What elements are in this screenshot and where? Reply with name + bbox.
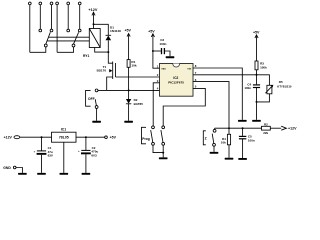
terminal K5 — [67, 2, 70, 5]
wire K2 down — [39, 5, 41, 29]
svg-text:10k: 10k — [131, 64, 136, 68]
sensor R5 arrow — [265, 86, 272, 93]
wire pole2 to K4 — [57, 47, 73, 52]
svg-text:OFF: OFF — [88, 97, 95, 101]
svg-text:+5V: +5V — [148, 29, 155, 33]
wire node E to sensor — [257, 75, 270, 86]
svg-text:78L05: 78L05 — [59, 136, 69, 140]
svg-text:RY1: RY1 — [83, 54, 89, 58]
svg-text:Z: Z — [205, 137, 207, 141]
svg-text:63V: 63V — [48, 154, 53, 158]
svg-text:+: + — [78, 149, 80, 153]
svg-text:6V3: 6V3 — [91, 153, 97, 157]
svg-text:KTY81/210: KTY81/210 — [277, 85, 292, 89]
relay contact lever 2 — [74, 32, 79, 44]
wire IC2 pin7 to node E — [193, 74, 257, 76]
node D junction — [152, 50, 154, 52]
terminal K3 — [50, 2, 53, 5]
relay contact pole 2 pivot — [72, 44, 75, 47]
ground OFF — [92, 121, 101, 123]
ground D2 — [124, 121, 133, 123]
node C junction — [128, 89, 130, 91]
transistor T1 BS170 channel — [112, 62, 114, 80]
wire relay coil bottom to node B — [95, 48, 109, 53]
transistor T1 gate bar — [115, 63, 117, 77]
svg-text:100n: 100n — [248, 138, 255, 142]
ground C5 — [238, 158, 247, 160]
svg-text:+12V: +12V — [288, 127, 297, 131]
terminal K4 — [56, 2, 59, 5]
terminal +5V out — [105, 136, 108, 139]
wire K1 down — [29, 5, 31, 53]
contact b3 — [78, 29, 81, 32]
terminal K6 — [78, 2, 81, 5]
wire node A to relay coil — [93, 24, 95, 28]
ground Prog — [159, 157, 168, 159]
wire +5V down to IC2 pin1 — [153, 34, 160, 68]
wire K4 down — [56, 5, 58, 53]
+5V arrow above C3 — [151, 34, 154, 37]
wire T1 source — [107, 77, 113, 90]
resistor R2 22k — [262, 126, 271, 130]
ground C4 — [252, 120, 261, 122]
relay contact pole 1 pivot — [44, 44, 47, 47]
wire K5 down — [67, 5, 69, 29]
+12V supply arrow — [92, 12, 95, 15]
svg-text:R2: R2 — [264, 123, 268, 127]
switch OFF bottom terminal — [95, 106, 98, 109]
wire C4 to ground — [256, 88, 258, 120]
svg-text:100k: 100k — [260, 66, 267, 70]
svg-text:+: + — [34, 149, 36, 153]
resistor R3 100k — [255, 61, 258, 70]
relay coil RY1 — [89, 29, 100, 48]
wire D2 to ground — [128, 104, 130, 121]
resistor R4 10k — [227, 134, 230, 145]
switch Z bracket — [203, 131, 206, 145]
capacitor C1 47u — [41, 137, 43, 151]
wire IC2 pin6 to node H — [193, 82, 229, 135]
wire node D to C3 — [153, 50, 161, 52]
ground C2 — [82, 173, 91, 175]
contact b2 — [67, 29, 70, 32]
svg-text:1N4148: 1N4148 — [110, 29, 121, 33]
svg-text:Vss: Vss — [187, 69, 192, 71]
capacitor C4 100n — [256, 75, 258, 85]
svg-text:10k: 10k — [221, 140, 226, 144]
wire IC2 pin3 stub — [153, 83, 159, 126]
wire +5V to R3 — [256, 35, 258, 61]
switch Z lever — [212, 134, 214, 144]
terminal GND — [13, 166, 16, 169]
wire Z to ground — [213, 146, 215, 152]
svg-text:+5V: +5V — [253, 30, 260, 34]
capacitor C5 100n — [242, 128, 244, 136]
wire IC2 pin8 to ground — [193, 68, 242, 120]
+5V arrow above R1 — [127, 34, 130, 37]
svg-text:BAT85: BAT85 — [134, 102, 144, 106]
wire +5V to R1 — [128, 34, 130, 60]
svg-text:+5V: +5V — [110, 135, 117, 139]
node E junction — [256, 74, 258, 76]
regulator IC1 78L05 — [52, 132, 77, 142]
node A junction — [93, 23, 95, 25]
wire rail node C row — [98, 89, 160, 91]
wire R3 to node E — [256, 70, 258, 75]
wire C2 to ground — [85, 154, 87, 173]
wire +12V input to IC1 — [20, 136, 52, 138]
wire K6 down — [79, 5, 81, 29]
wire R2 to +12V sense terminal — [270, 127, 281, 129]
ground R4 — [225, 158, 234, 160]
svg-text:+12V: +12V — [4, 136, 13, 140]
switch OFF bracket — [86, 90, 91, 106]
wire T1 gate to IC2 pin2 — [116, 76, 160, 78]
svg-text:22k: 22k — [263, 131, 268, 135]
wire contact bus 2 — [47, 40, 89, 42]
resistor R1 10k — [127, 60, 130, 68]
wire GND to ground — [16, 168, 22, 173]
switch Prog contact b bottom — [162, 142, 165, 145]
wire node B to T1 drain — [108, 52, 112, 63]
terminal +12V sense — [281, 126, 286, 130]
switch Prog contact b top — [162, 126, 165, 129]
node P junction — [41, 136, 43, 138]
svg-text:R5: R5 — [279, 80, 283, 84]
node F junction — [256, 101, 258, 103]
wire node H rail — [215, 127, 262, 129]
relay contact lever 1 — [46, 32, 51, 44]
wire Prog to ground — [153, 145, 163, 152]
switch OFF top terminal — [95, 89, 98, 92]
wire K3 down — [51, 5, 53, 29]
diode D1 1N4148 — [106, 34, 112, 36]
wire C5 to ground — [242, 139, 244, 158]
node B junction — [107, 51, 109, 53]
wire R1 to node C — [128, 67, 130, 90]
svg-text:PIC12F675: PIC12F675 — [168, 80, 184, 84]
wire OFF to ground — [96, 108, 98, 120]
wire sensor to node F — [257, 94, 270, 102]
switch Prog bracket — [142, 127, 147, 144]
switch Prog lever b — [161, 130, 163, 142]
ground C1 — [37, 173, 46, 175]
svg-text:IC1: IC1 — [61, 128, 66, 132]
svg-text:+5V: +5V — [124, 28, 131, 32]
wire C1 to ground — [41, 155, 43, 173]
contact a2 — [39, 29, 42, 32]
switch Prog contact a bottom — [152, 142, 155, 145]
wire R4 to ground — [228, 145, 230, 158]
wire C3 to ground — [165, 51, 170, 56]
svg-text:100n: 100n — [159, 42, 166, 46]
ground Z — [210, 152, 219, 154]
diode D2 BAT85 — [128, 90, 130, 99]
svg-text:GND: GND — [3, 166, 11, 170]
svg-text:+12V: +12V — [88, 8, 97, 12]
switch Prog contact a top — [152, 126, 155, 129]
capacitor C3 100n — [161, 48, 163, 54]
wire node A to D1 cathode — [94, 24, 109, 35]
ground C3 — [166, 56, 175, 58]
wire IC1 out to +5V terminal — [76, 136, 105, 138]
op IC2 PIC12F675 body — [160, 64, 194, 97]
wire +12V to node A — [93, 12, 95, 24]
svg-text:Prog: Prog — [142, 137, 150, 141]
ground GND — [18, 173, 27, 175]
svg-text:100n: 100n — [244, 86, 251, 90]
terminal K1 — [28, 2, 31, 5]
transistor T1 arrow — [109, 69, 112, 72]
wire contact bus 1 — [49, 36, 90, 38]
terminal K2 — [39, 2, 42, 5]
terminal +12V input — [14, 136, 20, 139]
switch OFF lever — [95, 99, 96, 105]
node G junction — [162, 152, 164, 154]
wire IC2 pin5 to Prog switch — [163, 88, 205, 126]
wire IC1 ground pin — [63, 142, 65, 173]
wire rail corner to switch Z — [214, 128, 216, 129]
switch Prog lever a — [151, 130, 153, 142]
switch Z top terminal — [213, 129, 216, 132]
ground pin8 — [238, 120, 247, 122]
IC2 notch — [173, 64, 180, 68]
svg-text:Vdd: Vdd — [161, 69, 166, 71]
+5V arrow above R3 — [255, 35, 258, 38]
sensor R5 KTY81 body — [267, 85, 272, 94]
svg-text:BS170: BS170 — [97, 69, 107, 73]
contact a3 — [50, 29, 53, 32]
ground IC1 — [60, 173, 69, 175]
switch Z bottom terminal — [213, 143, 216, 146]
capacitor C2 470u — [85, 137, 87, 150]
wire pole1 to K1 — [30, 47, 46, 52]
node Q junction — [85, 136, 87, 138]
wire D1 anode to node B — [107, 40, 109, 52]
node H junction — [228, 127, 230, 129]
